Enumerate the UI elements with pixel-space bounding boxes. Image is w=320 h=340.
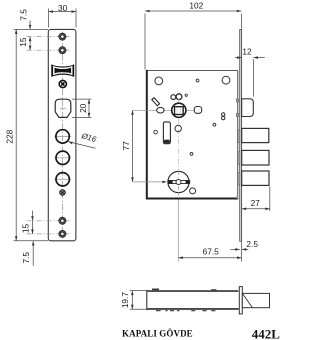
screw hole bottom 2 (knurled) <box>27 230 70 238</box>
dim 2.5 (strip thickness) <box>231 248 249 251</box>
feet <box>156 310 161 311</box>
big circle 1 <box>54 130 71 143</box>
svg-text:27: 27 <box>251 198 261 208</box>
dim 7.5 (top) <box>29 21 32 30</box>
bump top-left <box>152 289 159 291</box>
svg-text:15: 15 <box>20 224 30 234</box>
slanted pin upper-left <box>152 98 160 106</box>
small circle lower-right of cylinder <box>190 188 196 194</box>
svg-text:12: 12 <box>242 47 252 57</box>
svg-text:30: 30 <box>58 3 68 13</box>
cylinder circle <box>133 171 190 196</box>
svg-text:228: 228 <box>4 129 14 143</box>
svg-text:KALE: KALE <box>57 68 68 73</box>
small dot center <box>190 153 193 156</box>
follower (square spindle hole) <box>172 103 186 117</box>
dim 19.7 (case thickness) <box>130 291 147 310</box>
svg-text:19.7: 19.7 <box>120 292 130 309</box>
svg-text:77: 77 <box>121 141 131 151</box>
dim 30 (top) <box>49 9 77 28</box>
small hole top-middle <box>196 79 199 82</box>
deadbolt 3 <box>238 171 269 185</box>
svg-text:Ø16: Ø16 <box>80 131 98 144</box>
deadbolt 2 <box>238 150 269 165</box>
svg-text:7.5: 7.5 <box>21 252 31 264</box>
svg-text:102: 102 <box>189 0 203 10</box>
dim 77 (left, follower to cylinder) <box>131 110 134 182</box>
latch / bolt (bottom view) with bevel <box>242 293 269 307</box>
screw hole top 2 (knurled) <box>27 46 70 54</box>
double circle mid-right <box>222 113 225 116</box>
octagon center tick <box>60 107 66 109</box>
circle right of slot <box>175 125 181 131</box>
small circle left of slot <box>154 130 158 134</box>
phillips screw upper <box>59 80 66 87</box>
KALE logo <box>51 64 74 77</box>
dim 228 (left) <box>14 29 49 240</box>
dim 7.5 (bottom) <box>32 241 35 266</box>
leader Ø16 <box>68 131 98 148</box>
screw hole bottom 1 (knurled) <box>27 217 70 225</box>
small foot near case bottom right <box>236 196 238 199</box>
tiny dot right of pair <box>185 94 187 96</box>
dim 15 (bottom) <box>31 211 34 234</box>
screw hole top 1 (knurled) <box>27 33 70 41</box>
svg-text:KAPALI GÖVDE: KAPALI GÖVDE <box>122 328 193 338</box>
hole top-right <box>222 76 230 84</box>
right oval <box>194 107 201 114</box>
deadbolt 1 <box>238 128 269 142</box>
big circle 2 <box>54 151 71 164</box>
svg-text:442L: 442L <box>252 327 280 340</box>
dim 27 (deadbolt protrusion) <box>242 187 270 212</box>
phillips screw lower <box>60 190 65 195</box>
faceplate outline <box>48 29 76 240</box>
left oval <box>157 107 164 113</box>
follower centerline <box>133 109 194 111</box>
big circle 3 <box>54 173 71 186</box>
dim 67.5 (backset) <box>178 200 241 262</box>
hole top-left <box>155 77 163 85</box>
case bottom-view body <box>147 289 239 312</box>
small dot right-middle <box>213 123 216 126</box>
svg-text:7.5: 7.5 <box>19 9 29 21</box>
vertical centerline of faceplate <box>62 32 64 240</box>
cylinder hole (octagon) <box>55 99 71 117</box>
strip end (bottom view) <box>239 287 242 314</box>
svg-text:67.5: 67.5 <box>203 247 220 257</box>
pair of small circles above follower <box>171 95 176 100</box>
vertical centerline follower to cylinder <box>178 99 180 170</box>
dim 12 (latch protrusion) <box>235 56 265 96</box>
case body <box>146 70 238 200</box>
dim 20 (cylinder hole height) <box>72 99 91 117</box>
svg-text:15: 15 <box>18 37 28 47</box>
top-middle notch <box>211 289 216 290</box>
dim 102 (top) <box>145 10 241 70</box>
dim 15 (top) <box>29 37 32 51</box>
latch bolt (side view) <box>236 99 253 117</box>
vertical slot <box>163 122 170 144</box>
svg-text:2.5: 2.5 <box>246 239 258 249</box>
svg-text:20: 20 <box>78 103 88 113</box>
